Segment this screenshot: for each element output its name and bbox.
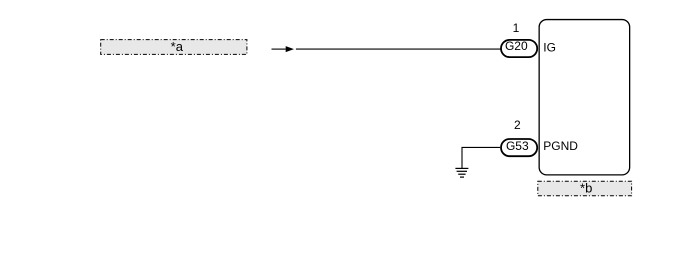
ECU box bbox=[539, 20, 630, 175]
svg-text:2: 2 bbox=[514, 118, 521, 132]
svg-text:G53: G53 bbox=[506, 139, 529, 153]
wire from arrow to terminal G20 bbox=[296, 48, 501, 50]
wire from *a to arrow bbox=[272, 48, 286, 50]
arrow (signal direction) bbox=[286, 46, 294, 52]
terminal G20 bbox=[501, 39, 537, 57]
node *a (dashed signal source box) bbox=[101, 39, 247, 54]
node *b (dashed label box) bbox=[538, 180, 632, 195]
svg-text:1: 1 bbox=[513, 21, 520, 35]
wire from ground to terminal G53 bbox=[462, 147, 500, 168]
svg-text:PGND: PGND bbox=[543, 139, 578, 153]
ground bbox=[455, 168, 468, 177]
terminal G53 bbox=[501, 139, 537, 156]
svg-text:IG: IG bbox=[543, 41, 556, 55]
svg-text:G20: G20 bbox=[505, 39, 528, 53]
svg-text:*b: *b bbox=[580, 180, 592, 195]
svg-text:*a: *a bbox=[171, 39, 184, 54]
